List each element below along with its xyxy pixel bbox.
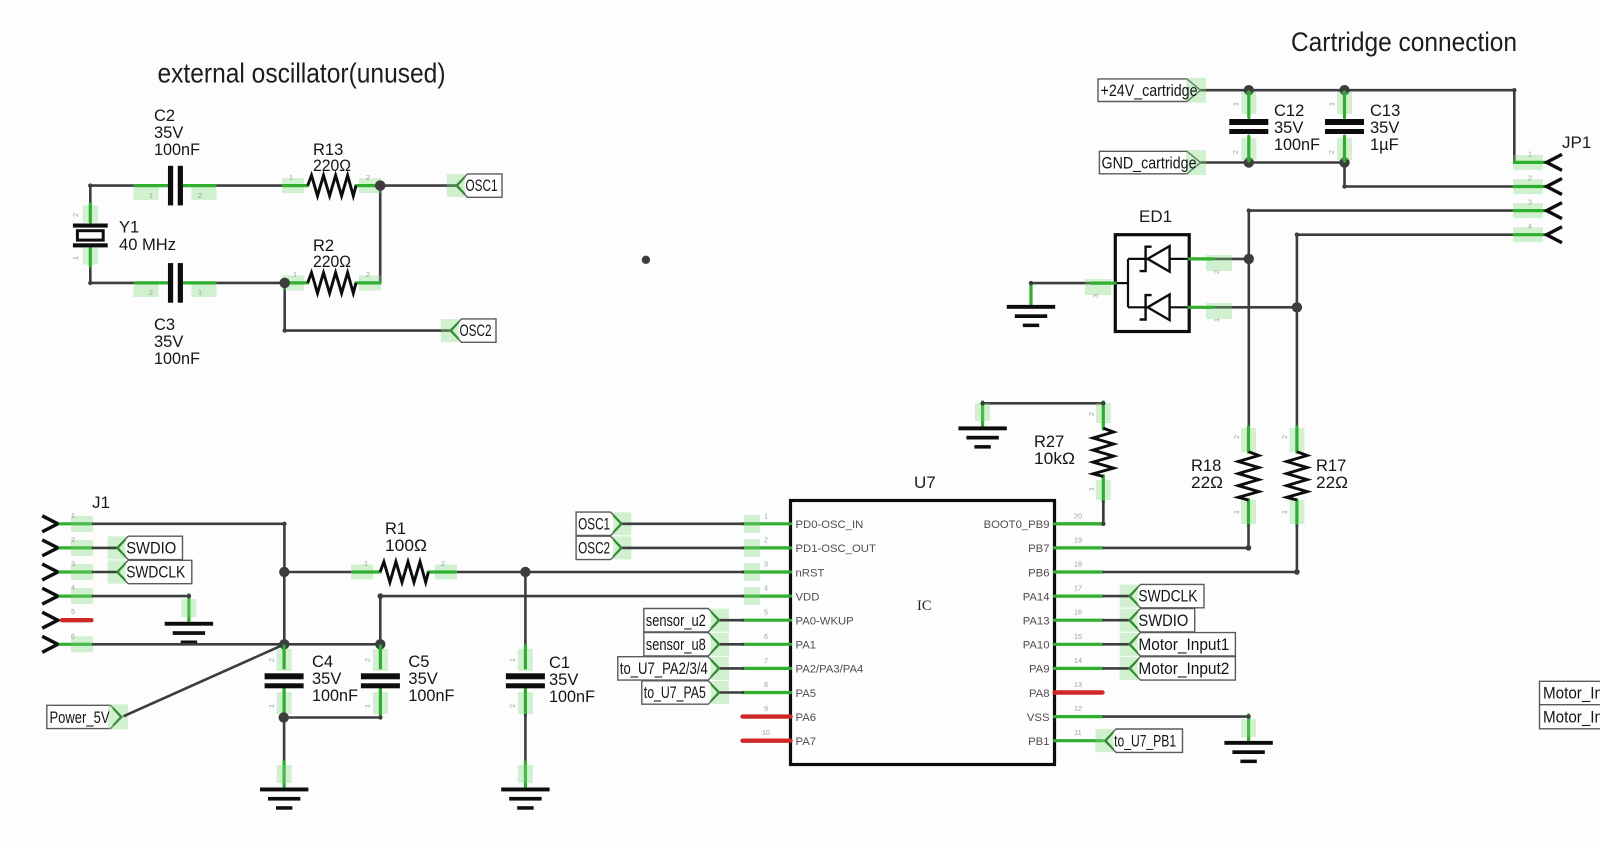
- connector JP1 pin 3: [1513, 203, 1543, 218]
- svg-text:C12: C12: [1274, 102, 1304, 120]
- svg-text:2: 2: [71, 213, 80, 217]
- svg-text:4: 4: [1528, 222, 1532, 231]
- U7 pin 12 VSS: [1055, 715, 1103, 718]
- wire R18 to PB7: [1247, 525, 1250, 549]
- svg-text:35V: 35V: [312, 670, 341, 688]
- resistor R1: [351, 565, 373, 580]
- svg-text:OSC2: OSC2: [578, 540, 610, 558]
- wire node A down to OSC2 flag: [283, 283, 286, 331]
- wire to_U7_PA5 to pin8: [720, 691, 744, 694]
- svg-text:19: 19: [1074, 535, 1082, 544]
- node A junction (OSC2 tap): [280, 278, 290, 288]
- svg-text:Motor_In: Motor_In: [1543, 684, 1600, 702]
- svg-text:4: 4: [71, 583, 75, 592]
- svg-text:C4: C4: [312, 653, 333, 671]
- svg-text:R1: R1: [385, 520, 406, 538]
- svg-text:BOOT0_PB9: BOOT0_PB9: [984, 519, 1050, 531]
- U7 pin 19 PB7: [1055, 546, 1103, 549]
- resistor R18: [1241, 428, 1256, 452]
- svg-text:10kΩ: 10kΩ: [1034, 450, 1075, 468]
- svg-text:JP1: JP1: [1562, 133, 1591, 152]
- wire R17 to PB6: [1296, 525, 1299, 573]
- svg-text:C13: C13: [1370, 102, 1400, 120]
- svg-text:C2: C2: [154, 107, 175, 125]
- U7 pin 3 nRST: [743, 570, 791, 573]
- U7 pin 10 PA7: [743, 739, 791, 743]
- net flag Motor_Input2 (right edge): [1540, 705, 1600, 729]
- net flag Motor_Input2 (U7): [1129, 657, 1236, 680]
- stray bendpoint dot: [642, 256, 650, 264]
- wire OSC1 to U7 pin1: [622, 522, 744, 525]
- svg-text:R18: R18: [1191, 457, 1221, 475]
- connector JP1 pin 2: [1513, 179, 1543, 194]
- svg-text:U7: U7: [914, 473, 936, 492]
- svg-text:PA8: PA8: [1029, 688, 1050, 700]
- svg-text:2: 2: [149, 288, 153, 297]
- svg-text:Motor_In: Motor_In: [1543, 708, 1600, 726]
- svg-text:2: 2: [363, 658, 372, 662]
- svg-text:1: 1: [764, 511, 768, 520]
- wire +24V net: [1199, 89, 1514, 92]
- svg-text:2: 2: [198, 191, 202, 200]
- svg-text:1µF: 1µF: [1370, 136, 1399, 154]
- wire vertical R2 pin2 to OSC1 node: [379, 186, 382, 283]
- svg-text:6: 6: [764, 632, 768, 641]
- ground at ED1: [1029, 283, 1032, 305]
- U7 pin 9 PA6: [743, 714, 791, 718]
- capacitor C12: [1241, 92, 1256, 114]
- svg-text:C1: C1: [549, 654, 570, 672]
- pin ED1 pin1: [1206, 303, 1232, 319]
- svg-text:35V: 35V: [1274, 119, 1303, 137]
- component ED1 body: [1115, 235, 1189, 332]
- svg-text:PD0-OSC_IN: PD0-OSC_IN: [796, 519, 864, 531]
- svg-text:22Ω: 22Ω: [1191, 474, 1223, 492]
- svg-text:100nF: 100nF: [154, 350, 200, 368]
- net flag SWDIO (U7): [1129, 609, 1195, 632]
- svg-text:PA14: PA14: [1023, 591, 1050, 603]
- junction ED1 pin1 node: [1292, 302, 1302, 312]
- svg-text:2: 2: [764, 535, 768, 544]
- svg-text:1: 1: [1528, 149, 1532, 158]
- U7 pin 17 PA14: [1055, 594, 1103, 597]
- net flag SWDCLK (J1): [117, 560, 192, 583]
- svg-text:ED1: ED1: [1139, 207, 1172, 226]
- svg-text:3: 3: [1091, 294, 1100, 298]
- capacitor C4: [277, 649, 292, 671]
- svg-text:35V: 35V: [549, 671, 578, 689]
- connector J1 pin 3: [42, 564, 58, 580]
- svg-text:6: 6: [71, 631, 75, 640]
- svg-text:22Ω: 22Ω: [1316, 474, 1348, 492]
- svg-text:35V: 35V: [154, 333, 183, 351]
- svg-text:2: 2: [366, 270, 370, 279]
- svg-text:1: 1: [289, 173, 293, 182]
- svg-text:1: 1: [1280, 510, 1289, 514]
- connector JP1 pin 4: [1513, 227, 1543, 242]
- svg-text:100nF: 100nF: [408, 687, 454, 705]
- wire C1 to ground: [524, 714, 527, 764]
- svg-text:PA0-WKUP: PA0-WKUP: [796, 616, 854, 628]
- svg-text:Power_5V: Power_5V: [50, 709, 110, 727]
- net flag +24V_cartridge: [1098, 79, 1201, 102]
- svg-text:Motor_Input1: Motor_Input1: [1138, 636, 1229, 654]
- wire bendpoints: [88, 183, 92, 187]
- svg-text:1: 1: [1212, 318, 1221, 322]
- svg-text:100nF: 100nF: [549, 688, 595, 706]
- U7 pin 6 PA1: [743, 643, 791, 646]
- svg-text:1: 1: [1232, 510, 1241, 514]
- svg-text:9: 9: [764, 704, 768, 713]
- ground at J1 pin4: [187, 595, 190, 623]
- wire PB6 to R17: [1103, 571, 1298, 574]
- wire J1 pin1 to nRST node: [92, 522, 284, 525]
- svg-text:35V: 35V: [154, 124, 183, 142]
- wire ED1 pin1 to node: [1213, 306, 1298, 309]
- svg-text:2: 2: [1212, 270, 1221, 274]
- svg-text:4: 4: [764, 584, 768, 593]
- svg-text:PA10: PA10: [1023, 640, 1050, 652]
- bendpoint VDD corner: [378, 593, 384, 599]
- svg-text:to_U7_PB1: to_U7_PB1: [1114, 732, 1176, 750]
- crystal Y1: [83, 206, 98, 223]
- net flag to_U7_PA2/3/4: [618, 657, 720, 680]
- svg-text:VDD: VDD: [796, 591, 820, 603]
- junction GND / C13: [1339, 157, 1349, 167]
- junction R17/PB6: [1294, 569, 1300, 575]
- svg-text:2: 2: [71, 535, 75, 544]
- wire to_U7_PA2/3/4 to pin7: [720, 667, 744, 670]
- svg-text:OSC1: OSC1: [578, 515, 610, 533]
- wire C4-to-C5 node: [284, 643, 380, 646]
- svg-text:5: 5: [764, 608, 768, 617]
- svg-text:100nF: 100nF: [1274, 136, 1320, 154]
- svg-text:1: 1: [1327, 102, 1336, 106]
- net flag sensor_u8: [644, 633, 720, 656]
- svg-text:external oscillator(unused): external oscillator(unused): [158, 58, 446, 89]
- junction ED1 pin2 node: [1244, 254, 1254, 264]
- svg-text:18: 18: [1074, 560, 1082, 569]
- svg-text:3: 3: [71, 559, 75, 568]
- svg-text:17: 17: [1074, 584, 1082, 593]
- resistor R2: [282, 275, 304, 290]
- wire Power_5V diagonal: [124, 644, 285, 716]
- svg-text:PB1: PB1: [1028, 736, 1049, 748]
- U7 pin 14 PA9: [1055, 667, 1103, 670]
- wire J1 pin6 to Power_5V node: [92, 643, 285, 646]
- svg-text:PA6: PA6: [796, 712, 817, 724]
- svg-text:2: 2: [1280, 435, 1289, 439]
- svg-text:PA9: PA9: [1029, 664, 1050, 676]
- connector J1 pin 6: [42, 636, 58, 652]
- net flag OSC1 (U7): [576, 512, 622, 535]
- wire J1 pin3 to SWDCLK: [92, 571, 117, 574]
- svg-text:220Ω: 220Ω: [313, 253, 351, 271]
- svg-text:Motor_Input2: Motor_Input2: [1138, 660, 1229, 678]
- capacitor C5: [373, 649, 388, 671]
- U7 pin 13 PA8: [1055, 690, 1103, 694]
- wire OSC2 to U7 pin2: [622, 547, 744, 550]
- junction R18/PB7: [1246, 545, 1252, 551]
- svg-text:1: 1: [293, 270, 297, 279]
- ground at VSS: [1247, 715, 1250, 742]
- connector J1 pin 5: [42, 612, 58, 628]
- svg-text:OSC1: OSC1: [466, 177, 498, 195]
- connector J1 pin 1: [42, 516, 58, 532]
- svg-text:Cartridge connection: Cartridge connection: [1291, 27, 1517, 57]
- svg-text:to_U7_PA5: to_U7_PA5: [644, 684, 706, 702]
- resistor R17: [1289, 428, 1304, 452]
- svg-text:16: 16: [1074, 608, 1082, 617]
- svg-text:2: 2: [1528, 174, 1532, 183]
- net flag OSC1 (oscillator): [456, 174, 502, 197]
- U7 pin 11 PB1: [1055, 739, 1103, 742]
- svg-text:2: 2: [1232, 435, 1241, 439]
- svg-text:3: 3: [764, 560, 768, 569]
- wire ED1 pin2 to node: [1213, 258, 1250, 261]
- capacitor C3: [134, 281, 159, 297]
- U7 pin 5 PA0-WKUP: [743, 619, 791, 622]
- ground at C4: [283, 762, 286, 788]
- wire ED1 pin3 to ground: [1031, 282, 1092, 285]
- svg-text:1: 1: [508, 658, 517, 662]
- wire VDD corner: [379, 596, 382, 645]
- svg-text:1: 1: [149, 191, 153, 200]
- svg-text:PA7: PA7: [796, 736, 817, 748]
- svg-text:2: 2: [1327, 150, 1336, 154]
- svg-text:14: 14: [1074, 656, 1082, 665]
- svg-text:PA5: PA5: [796, 688, 817, 700]
- U7 pin 20 BOOT0_PB9: [1055, 522, 1103, 525]
- diode ED1 bottom (pin1 side): [1148, 295, 1170, 321]
- svg-text:PB6: PB6: [1028, 567, 1049, 579]
- junction C5 top: [375, 639, 385, 649]
- svg-text:VSS: VSS: [1027, 712, 1050, 724]
- node OSC1 junction: [375, 180, 385, 190]
- svg-text:15: 15: [1074, 632, 1082, 641]
- svg-text:C5: C5: [408, 653, 429, 671]
- net flag Motor_Input1 (U7): [1129, 633, 1236, 656]
- U7 pin 18 PB6: [1055, 570, 1103, 573]
- svg-text:SWDIO: SWDIO: [126, 540, 176, 558]
- svg-text:R17: R17: [1316, 457, 1346, 475]
- wire nRST-node to R1: [284, 571, 354, 574]
- resistor R27: [1096, 403, 1111, 423]
- wire sensor_u8 to pin6: [720, 643, 744, 646]
- junction GND / C12: [1244, 157, 1254, 167]
- junction OSC1 node redraw: [375, 180, 385, 190]
- connector JP1 pin 1: [1513, 155, 1543, 170]
- wire BOOT0_PB9 to R27: [1102, 502, 1105, 526]
- svg-text:20: 20: [1074, 511, 1082, 520]
- wire node down pin1-to-pin6: [283, 572, 286, 644]
- svg-text:R27: R27: [1034, 433, 1064, 451]
- svg-text:7: 7: [764, 656, 768, 665]
- svg-text:35V: 35V: [1370, 119, 1399, 137]
- junction nRST / J1 pin1: [279, 567, 289, 577]
- svg-text:1: 1: [198, 288, 202, 297]
- junction +24V / C12: [1244, 85, 1254, 95]
- svg-text:2: 2: [441, 559, 445, 568]
- ground at R27 net: [981, 402, 984, 428]
- net flag Motor_Input1 (right edge): [1540, 681, 1600, 704]
- wire sensor_u2 to pin5: [720, 619, 744, 622]
- wire J1 pin2 to SWDIO: [92, 547, 117, 550]
- svg-text:to_U7_PA2/3/4: to_U7_PA2/3/4: [620, 660, 708, 678]
- svg-text:100Ω: 100Ω: [385, 537, 427, 555]
- wire PA10 to Motor_Input1: [1103, 643, 1129, 646]
- wire ground to R27 top: [981, 402, 1104, 405]
- op-amp U7 body (IC box): [791, 501, 1055, 765]
- svg-text:2: 2: [1231, 150, 1240, 154]
- resistor R13: [282, 178, 304, 193]
- capacitor C2: [134, 184, 159, 200]
- svg-text:GND_cartridge: GND_cartridge: [1102, 155, 1197, 173]
- svg-text:sensor_u2: sensor_u2: [646, 612, 706, 630]
- svg-text:nRST: nRST: [796, 567, 825, 579]
- pin ED1 pin2: [1206, 255, 1232, 271]
- net flag OSC2 (oscillator): [450, 319, 496, 342]
- svg-text:11: 11: [1074, 728, 1081, 737]
- wire VSS to ground: [1103, 715, 1249, 718]
- svg-text:SWDCLK: SWDCLK: [126, 564, 185, 582]
- svg-text:+24V_cartridge: +24V_cartridge: [1101, 82, 1198, 100]
- wire C4 node to ground: [283, 718, 286, 765]
- svg-text:2: 2: [267, 658, 276, 662]
- U7 pin 16 PA13: [1055, 619, 1103, 622]
- diode ED1 top (pin2 side): [1148, 246, 1170, 272]
- wire to JP1 pin4 from node: [1296, 233, 1299, 428]
- wire C3 to node A: [214, 282, 286, 285]
- svg-text:13: 13: [1074, 680, 1082, 689]
- junction nRST/C1: [520, 567, 530, 577]
- svg-text:220Ω: 220Ω: [313, 157, 351, 175]
- wire top oscillator net (Y1 pin2 / C2): [89, 184, 92, 206]
- wire C4/C5 bottom link: [284, 716, 381, 719]
- U7 pin 8 PA5: [743, 691, 791, 694]
- net flag sensor_u2: [644, 609, 720, 632]
- wire VDD net: [380, 595, 744, 598]
- svg-text:IC: IC: [917, 598, 932, 614]
- wire PB7 to R18: [1103, 547, 1250, 550]
- wire GND_cartridge net: [1199, 161, 1345, 164]
- svg-text:OSC2: OSC2: [460, 322, 492, 340]
- wire bottom oscillator net (Y1 pin1 / C3): [89, 262, 92, 284]
- U7 pin 1 PD0-OSC_IN: [743, 522, 791, 525]
- svg-text:PA2/PA3/PA4: PA2/PA3/PA4: [796, 664, 864, 676]
- svg-text:10: 10: [762, 728, 770, 737]
- junction +24V / C13: [1339, 85, 1349, 95]
- net flag OSC2 (U7): [576, 536, 622, 559]
- svg-text:2: 2: [508, 704, 517, 708]
- wire PA14 to SWDCLK: [1103, 595, 1129, 598]
- net flag Power_5V: [47, 705, 122, 728]
- svg-text:1: 1: [364, 559, 368, 568]
- net flag to_U7_PB1: [1104, 729, 1182, 752]
- svg-text:1: 1: [71, 256, 80, 260]
- svg-text:2: 2: [366, 173, 370, 182]
- svg-text:5: 5: [71, 607, 75, 616]
- connector J1 pin 2: [42, 540, 58, 556]
- wire PA9 to Motor_Input2: [1103, 667, 1129, 670]
- svg-text:J1: J1: [92, 493, 110, 512]
- svg-text:1: 1: [1231, 102, 1240, 106]
- junction Power_5V node: [279, 639, 289, 649]
- wire C2 to R13: [214, 184, 285, 187]
- svg-text:3: 3: [1528, 198, 1532, 207]
- svg-text:PD1-OSC_OUT: PD1-OSC_OUT: [796, 543, 876, 555]
- svg-text:SWDIO: SWDIO: [1138, 612, 1188, 630]
- svg-text:C3: C3: [154, 316, 175, 334]
- svg-text:40 MHz: 40 MHz: [119, 236, 176, 254]
- svg-text:1: 1: [267, 704, 276, 708]
- net flag SWDIO (J1): [117, 536, 183, 559]
- U7 pin 2 PD1-OSC_OUT: [743, 546, 791, 549]
- wire R27 to BOOT0_PB9: [1102, 501, 1105, 526]
- svg-text:PB7: PB7: [1028, 543, 1049, 555]
- svg-text:100nF: 100nF: [154, 141, 200, 159]
- net flag GND_cartridge: [1099, 151, 1200, 174]
- capacitor C13: [1337, 92, 1352, 114]
- ground at C1: [524, 762, 527, 788]
- capacitor C1: [518, 649, 533, 671]
- wire to JP1 pin3 from node: [1248, 209, 1251, 428]
- svg-text:1: 1: [71, 511, 75, 520]
- wire PA13 to SWDIO: [1103, 619, 1129, 622]
- wire R13 pin2 to OSC1 node: [380, 184, 457, 187]
- svg-text:35V: 35V: [408, 670, 437, 688]
- junction C4 bottom: [279, 712, 289, 722]
- svg-text:100nF: 100nF: [312, 687, 358, 705]
- svg-text:1: 1: [1087, 487, 1096, 491]
- net flag SWDCLK (U7): [1129, 584, 1204, 607]
- svg-text:8: 8: [764, 680, 768, 689]
- svg-text:12: 12: [1074, 704, 1082, 713]
- wire nRST net: [455, 571, 744, 574]
- wire J1 pin4 to ground: [92, 595, 189, 598]
- junction node A redraw: [280, 278, 290, 288]
- U7 pin 7 PA2/PA3/PA4: [743, 667, 791, 670]
- U7 pin 15 PA10: [1055, 643, 1103, 646]
- svg-text:1: 1: [363, 704, 372, 708]
- svg-text:sensor_u8: sensor_u8: [646, 636, 706, 654]
- svg-text:2: 2: [1087, 412, 1096, 416]
- U7 pin 4 VDD: [743, 594, 791, 597]
- pin ED1 pin3: [1085, 279, 1111, 295]
- connector J1 pin 4: [42, 588, 58, 604]
- net flag to_U7_PA5: [642, 681, 720, 704]
- svg-text:SWDCLK: SWDCLK: [1138, 588, 1197, 606]
- svg-text:PA13: PA13: [1023, 616, 1050, 628]
- svg-text:PA1: PA1: [796, 640, 817, 652]
- wire C13 to JP1 pin2: [1343, 163, 1346, 187]
- svg-text:Y1: Y1: [119, 219, 139, 237]
